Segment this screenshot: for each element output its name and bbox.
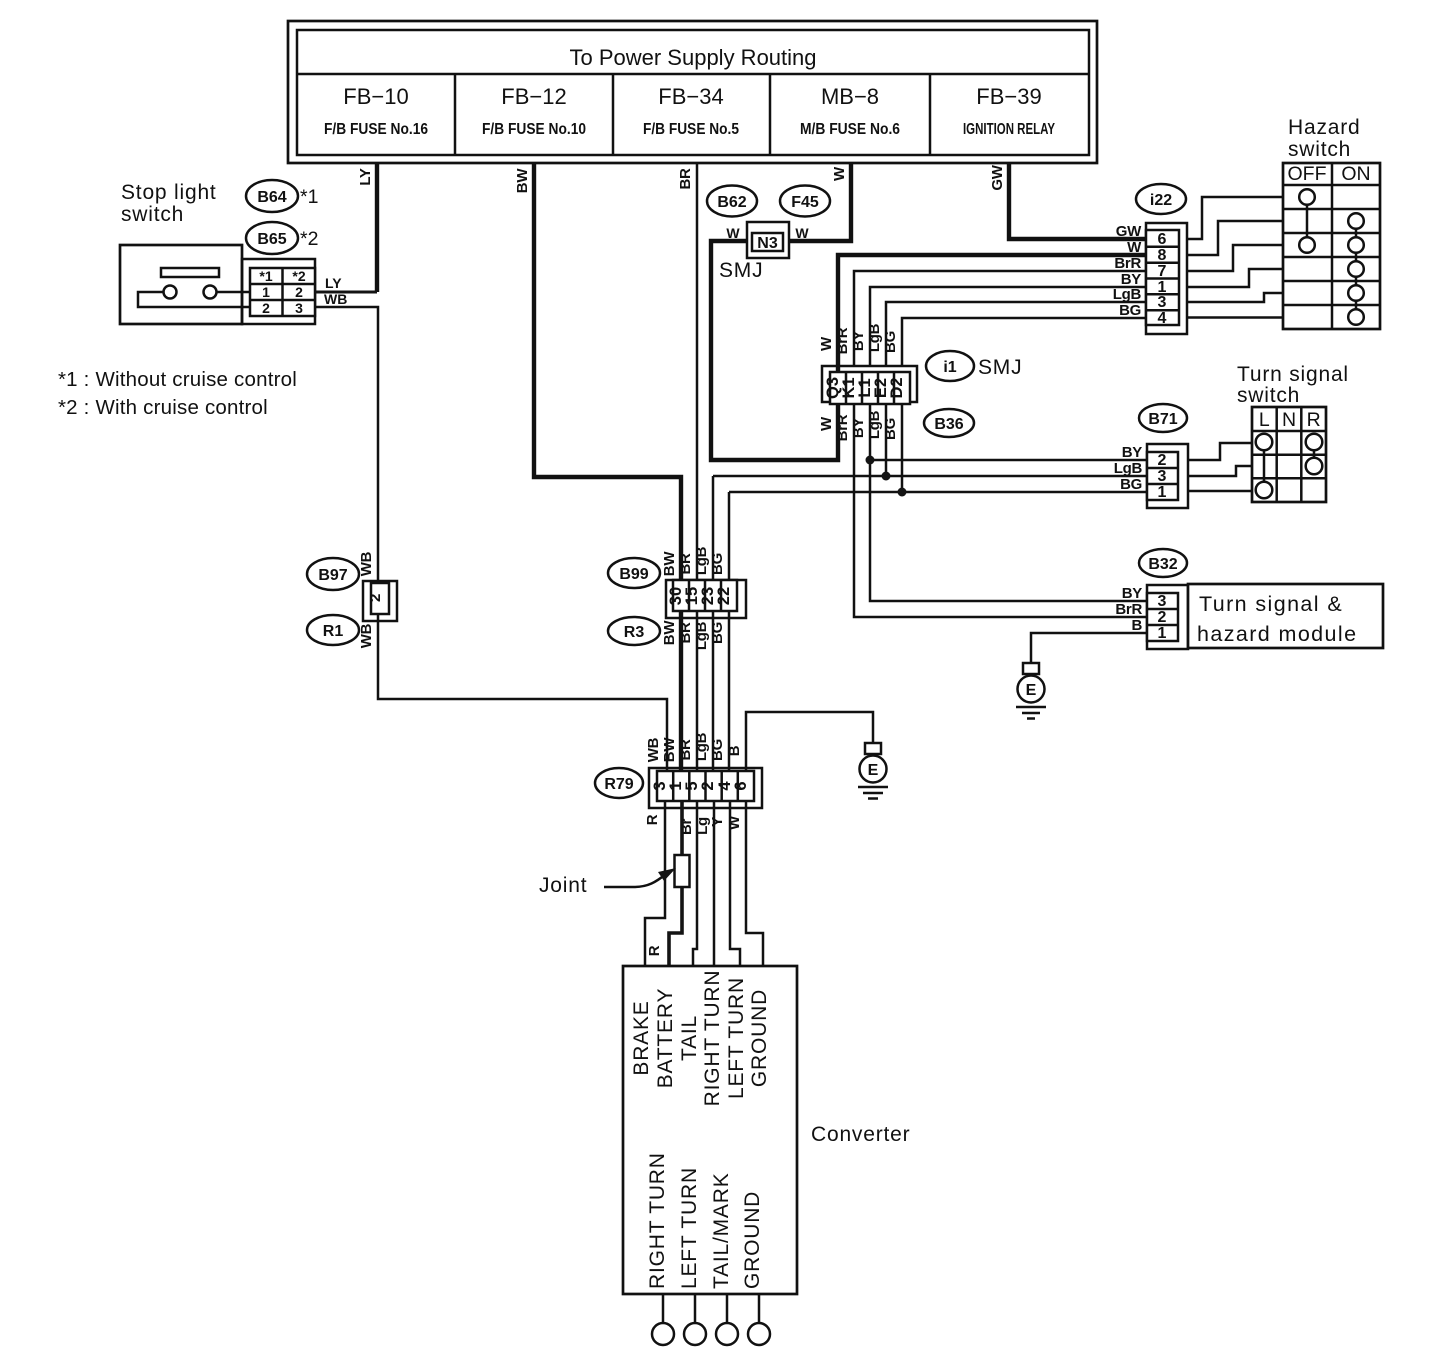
svg-text:6: 6 <box>1158 231 1167 248</box>
svg-text:GROUND: GROUND <box>741 1191 764 1289</box>
svg-text:i22: i22 <box>1150 192 1172 209</box>
svg-text:BG: BG <box>882 418 899 440</box>
svg-text:SMJ: SMJ <box>719 259 763 282</box>
svg-text:SMJ: SMJ <box>978 356 1022 379</box>
svg-text:BY: BY <box>1122 444 1143 461</box>
svg-text:LY: LY <box>357 168 374 185</box>
svg-text:BG: BG <box>1120 476 1142 493</box>
svg-text:E: E <box>1026 682 1037 699</box>
svg-text:i1: i1 <box>943 359 956 376</box>
svg-text:M/B FUSE No.6: M/B FUSE No.6 <box>800 121 900 138</box>
svg-text:WB: WB <box>358 623 375 648</box>
svg-text:B65: B65 <box>257 231 286 248</box>
svg-text:GROUND: GROUND <box>748 989 771 1087</box>
svg-text:WB: WB <box>324 291 347 307</box>
svg-text:LgB: LgB <box>693 621 710 650</box>
svg-text:3: 3 <box>295 300 303 316</box>
svg-text:Converter: Converter <box>811 1123 910 1146</box>
svg-text:R79: R79 <box>604 776 633 793</box>
svg-text:LgB: LgB <box>866 410 883 439</box>
svg-text:*2: *2 <box>292 268 305 284</box>
svg-text:BG: BG <box>709 739 726 761</box>
svg-text:MB−8: MB−8 <box>821 84 879 109</box>
svg-text:B99: B99 <box>619 566 648 583</box>
svg-text:W: W <box>726 815 743 830</box>
svg-text:BY: BY <box>850 331 867 352</box>
svg-text:BRAKE: BRAKE <box>630 1000 653 1075</box>
svg-text:W: W <box>795 225 809 241</box>
svg-text:N: N <box>1282 409 1296 431</box>
svg-text:BG: BG <box>1119 302 1141 319</box>
svg-text:FB−12: FB−12 <box>501 84 566 109</box>
svg-text:Stop light: Stop light <box>121 181 217 204</box>
svg-text:F/B FUSE No.16: F/B FUSE No.16 <box>324 121 428 138</box>
svg-text:2: 2 <box>1158 609 1167 626</box>
svg-text:GW: GW <box>989 164 1006 190</box>
svg-text:Turn signal &: Turn signal & <box>1199 592 1343 616</box>
svg-text:OFF: OFF <box>1288 163 1327 185</box>
svg-text:B: B <box>1131 617 1142 634</box>
svg-text:2: 2 <box>262 300 270 316</box>
svg-text:BG: BG <box>709 553 726 575</box>
svg-text:7: 7 <box>1158 263 1167 280</box>
svg-text:1: 1 <box>1158 625 1167 642</box>
svg-text:R: R <box>644 814 661 825</box>
svg-text:Joint: Joint <box>539 874 587 897</box>
svg-text:W: W <box>818 336 835 351</box>
svg-text:R3: R3 <box>624 624 645 641</box>
svg-text:4: 4 <box>1158 310 1167 327</box>
svg-text:RIGHT TURN: RIGHT TURN <box>646 1152 669 1289</box>
svg-text:To Power Supply Routing: To Power Supply Routing <box>569 45 816 70</box>
svg-text:E: E <box>868 762 879 779</box>
svg-text:W: W <box>1127 239 1142 256</box>
svg-text:GW: GW <box>1116 223 1142 240</box>
svg-text:1: 1 <box>262 284 270 300</box>
svg-text:N3: N3 <box>757 235 778 252</box>
svg-text:B62: B62 <box>717 194 746 211</box>
svg-text:IGNITION RELAY: IGNITION RELAY <box>963 121 1055 138</box>
svg-text:L: L <box>1259 409 1270 431</box>
svg-text:3: 3 <box>1158 593 1167 610</box>
svg-text:FB−39: FB−39 <box>976 84 1041 109</box>
svg-text:LEFT TURN: LEFT TURN <box>725 977 748 1099</box>
svg-text:LgB: LgB <box>1114 460 1143 477</box>
svg-text:switch: switch <box>121 203 184 226</box>
svg-text:*2: *2 <box>300 228 318 250</box>
svg-text:D2: D2 <box>888 377 906 398</box>
svg-text:hazard module: hazard module <box>1197 622 1357 646</box>
svg-text:BG: BG <box>709 622 726 644</box>
svg-text:F45: F45 <box>791 194 819 211</box>
svg-text:Y: Y <box>709 817 726 827</box>
svg-text:F/B FUSE No.10: F/B FUSE No.10 <box>482 121 586 138</box>
svg-text:B97: B97 <box>318 567 347 584</box>
svg-text:BR: BR <box>677 739 694 761</box>
svg-text:BrR: BrR <box>834 414 851 441</box>
svg-text:2: 2 <box>367 594 384 602</box>
svg-text:TAIL: TAIL <box>678 1015 701 1061</box>
svg-text:22: 22 <box>715 587 733 605</box>
svg-text:BrR: BrR <box>1114 255 1141 272</box>
svg-text:ON: ON <box>1341 163 1370 185</box>
svg-text:BATTERY: BATTERY <box>654 988 677 1089</box>
svg-text:FB−10: FB−10 <box>343 84 408 109</box>
svg-text:3: 3 <box>1158 468 1167 485</box>
svg-text:B32: B32 <box>1148 556 1177 573</box>
svg-text:BW: BW <box>661 737 678 763</box>
svg-text:R1: R1 <box>323 623 344 640</box>
svg-text:BW: BW <box>514 168 531 194</box>
svg-text:BY: BY <box>850 418 867 439</box>
svg-text:LY: LY <box>325 275 342 291</box>
svg-text:1: 1 <box>1158 484 1167 501</box>
svg-text:TAIL/MARK: TAIL/MARK <box>710 1173 733 1290</box>
svg-text:3: 3 <box>1158 294 1167 311</box>
svg-text:W: W <box>831 166 848 181</box>
svg-text:B: B <box>726 745 743 756</box>
svg-text:Turn signal: Turn signal <box>1237 363 1349 386</box>
svg-text:*1: *1 <box>259 268 272 284</box>
svg-text:B36: B36 <box>934 416 963 433</box>
svg-text:W: W <box>818 416 835 431</box>
svg-text:BrR: BrR <box>834 327 851 354</box>
svg-text:LgB: LgB <box>1113 286 1142 303</box>
svg-text:BrR: BrR <box>1115 601 1142 618</box>
svg-text:B71: B71 <box>1148 411 1177 428</box>
svg-text:switch: switch <box>1288 138 1351 161</box>
svg-text:*2 : With cruise control: *2 : With cruise control <box>58 396 268 419</box>
svg-text:F/B FUSE No.5: F/B FUSE No.5 <box>643 121 739 138</box>
svg-text:BR: BR <box>677 168 694 190</box>
svg-text:BW: BW <box>661 620 678 646</box>
svg-text:*1: *1 <box>300 186 318 208</box>
svg-text:LEFT TURN: LEFT TURN <box>678 1167 701 1289</box>
svg-text:R: R <box>1307 409 1321 431</box>
svg-text:8: 8 <box>1158 247 1167 264</box>
svg-text:switch: switch <box>1237 384 1300 407</box>
svg-text:R: R <box>646 945 663 956</box>
svg-text:6: 6 <box>732 781 750 790</box>
svg-text:LgB: LgB <box>866 323 883 352</box>
svg-text:BR: BR <box>677 553 694 575</box>
svg-text:WB: WB <box>358 551 375 576</box>
svg-text:LgB: LgB <box>693 732 710 761</box>
svg-text:Hazard: Hazard <box>1288 116 1361 139</box>
svg-text:2: 2 <box>1158 452 1167 469</box>
svg-text:*1 : Without cruise control: *1 : Without cruise control <box>58 368 297 391</box>
svg-text:2: 2 <box>699 781 717 790</box>
svg-text:BW: BW <box>661 551 678 577</box>
svg-text:RIGHT TURN: RIGHT TURN <box>701 970 724 1107</box>
svg-text:W: W <box>726 225 740 241</box>
svg-text:WB: WB <box>645 737 662 762</box>
svg-text:BG: BG <box>882 331 899 353</box>
svg-text:BY: BY <box>1122 585 1143 602</box>
svg-text:FB−34: FB−34 <box>658 84 723 109</box>
svg-text:B64: B64 <box>257 189 286 206</box>
svg-text:2: 2 <box>295 284 303 300</box>
svg-text:LgB: LgB <box>693 546 710 575</box>
